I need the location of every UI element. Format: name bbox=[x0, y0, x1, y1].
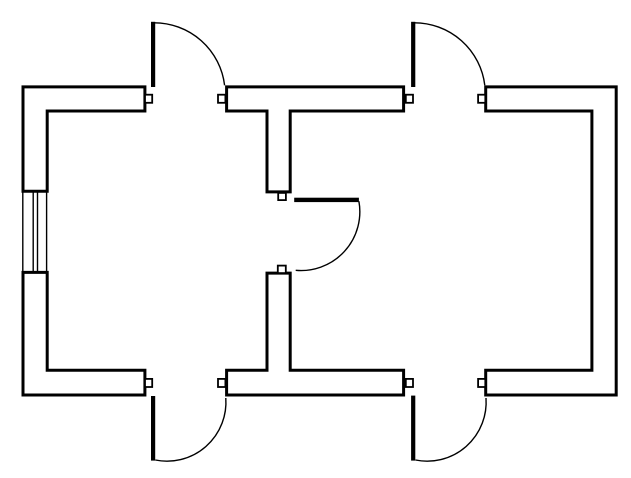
door swing arc: middle door D5 bbox=[296, 201, 360, 270]
door leaf: top-right door D2 bbox=[411, 22, 415, 87]
door jamb: bottom-right door, right block bbox=[478, 379, 485, 387]
door leaf: bottom-left door D3 bbox=[151, 396, 155, 461]
wall: bottom-middle T (bar between bottom doorways + stem up to middle door) bbox=[227, 273, 404, 395]
door jamb: middle door, bottom block bbox=[278, 266, 286, 274]
door jamb: bottom-left door, right block bbox=[218, 379, 225, 387]
door jamb: top-right door, right block bbox=[478, 95, 485, 103]
wall: top-middle T (bar between top doorways + stem down to middle door) bbox=[227, 87, 404, 192]
door leaf: middle door D5 bbox=[294, 198, 359, 202]
door swing arc: bottom-left door D3 bbox=[155, 398, 226, 461]
door swing arc: top-right door D2 bbox=[414, 23, 485, 86]
door jamb: top-right door, left block bbox=[406, 95, 413, 103]
door leaf: bottom-right door D4 bbox=[411, 396, 415, 461]
door swing arc: bottom-right door D4 bbox=[416, 398, 487, 461]
wall: upper-left L (left wall above window + top-left wall segment) bbox=[23, 87, 145, 191]
window W1 glazing lines (in left wall) bbox=[23, 191, 47, 272]
door jamb: middle door, top block bbox=[278, 193, 286, 200]
wall: lower-left L (left wall below window + bottom-left wall segment) bbox=[23, 272, 145, 395]
door jamb: top-left door, right block bbox=[218, 95, 225, 103]
wall: right C (top-right segment + right wall + bottom-right segment) bbox=[486, 87, 617, 395]
door jamb: top-left door, left block bbox=[145, 95, 152, 103]
door leaf: top-left door D1 bbox=[151, 22, 155, 87]
door jamb: bottom-right door, left block bbox=[406, 379, 413, 387]
door jamb: bottom-left door, left block bbox=[145, 379, 152, 387]
door swing arc: top-left door D1 bbox=[154, 23, 225, 86]
